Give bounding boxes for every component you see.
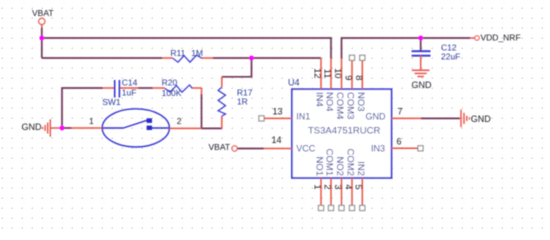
svg-text:R20: R20: [162, 77, 178, 87]
U4 pin 11 NO4: [323, 59, 335, 112]
ground GND (right, pin 7): [461, 110, 491, 128]
svg-text:1M: 1M: [191, 48, 203, 58]
power VBAT (middle): [209, 142, 238, 152]
svg-text:IN2: IN2: [355, 161, 366, 176]
svg-text:GND: GND: [471, 114, 492, 124]
svg-text:COM4: COM4: [334, 92, 345, 119]
U4 pin 7 GND: [392, 106, 422, 118]
junction node C12/VDD_NRF: [418, 36, 423, 41]
svg-text:SW1: SW1: [102, 97, 121, 107]
svg-text:12: 12: [313, 68, 324, 78]
svg-text:VDD_NRF: VDD_NRF: [481, 33, 521, 43]
power VBAT (top-left): [32, 8, 54, 28]
wire junction to R17 top: [222, 58, 252, 77]
U4 pin 5 IN2: [354, 161, 366, 210]
wire SW1 pin2 to R17 bottom: [202, 127, 223, 129]
wire GND junction to SW1 pin1: [62, 127, 71, 129]
wire U4 pin 7 to GND: [421, 117, 460, 119]
svg-text:100K: 100K: [162, 88, 182, 98]
resistor R11 1M: [162, 48, 213, 62]
U4 pin 2 COM1: [322, 149, 334, 211]
junction node VBAT top: [39, 36, 44, 41]
U4 pin 14 VCC: [264, 135, 292, 149]
svg-text:1: 1: [89, 116, 94, 126]
svg-text:NO2: NO2: [334, 156, 345, 176]
junction node GND/SW1: [60, 126, 65, 131]
wire R20 corner down to SW1 pin2 row: [201, 94, 203, 129]
svg-text:9: 9: [344, 75, 355, 80]
ground GND (under C12): [412, 70, 433, 90]
wire R11 to U4 pin 12: [213, 57, 321, 59]
svg-text:GND: GND: [412, 80, 433, 90]
resistor R20 100K: [153, 77, 202, 98]
svg-text:5: 5: [354, 184, 365, 189]
svg-text:C14: C14: [122, 77, 138, 87]
wire C14 to R20: [138, 87, 153, 89]
svg-text:NO1: NO1: [314, 156, 325, 176]
svg-text:1R: 1R: [237, 96, 248, 106]
svg-text:4: 4: [343, 184, 354, 189]
svg-text:U4: U4: [288, 78, 300, 88]
U4 pin 13 IN1 (unconnected, square end): [259, 106, 292, 121]
capacitor C14 1uF: [103, 77, 138, 97]
U4 pin 4 COM2: [343, 149, 355, 211]
svg-text:1: 1: [312, 184, 323, 189]
svg-text:IN1: IN1: [296, 111, 310, 121]
svg-text:VCC: VCC: [296, 144, 316, 154]
capacitor C12 22uF: [412, 43, 461, 71]
svg-text:2: 2: [322, 184, 333, 189]
svg-text:NO4: NO4: [324, 92, 335, 112]
svg-text:14: 14: [272, 135, 282, 145]
svg-text:3: 3: [333, 184, 344, 189]
svg-text:COM2: COM2: [345, 149, 356, 176]
svg-text:1uF: 1uF: [122, 88, 137, 98]
switch SW1: [71, 97, 201, 147]
wire VBAT2 to U4 pin 14: [238, 148, 264, 150]
wire VBAT vertical: [41, 28, 43, 58]
svg-text:R11: R11: [170, 48, 185, 58]
svg-text:VBAT: VBAT: [209, 142, 231, 152]
U4 pin 6 IN3 (unconnected, square end): [392, 136, 424, 151]
resistor R17 1R (vertical): [218, 77, 253, 129]
power VDD_NRF: [470, 33, 520, 43]
svg-text:8: 8: [354, 75, 365, 80]
svg-text:10: 10: [333, 68, 344, 78]
svg-text:GND: GND: [22, 122, 43, 132]
svg-text:VBAT: VBAT: [32, 8, 54, 18]
wire junction to C12: [420, 38, 422, 51]
svg-text:IN3: IN3: [371, 143, 385, 153]
junction node R11/R17: [249, 56, 254, 61]
U4 pin 9 COM3 (unconnected): [344, 55, 356, 119]
svg-text:2: 2: [177, 116, 182, 126]
wire VBAT to U4 pin 11 (top net y=38): [42, 38, 331, 59]
ground GND (left): [22, 119, 63, 136]
wire C14 loop top-left: [62, 88, 103, 128]
U4 pin 12 IN4: [313, 58, 325, 107]
svg-text:13: 13: [273, 106, 283, 116]
wire VBAT to R11 (y=57): [42, 57, 162, 59]
IC U4 TS3A4751RUCR: [288, 78, 392, 178]
svg-text:TS3A4751RUCR: TS3A4751RUCR: [308, 126, 380, 137]
svg-text:NO3: NO3: [355, 92, 366, 112]
svg-text:11: 11: [323, 69, 334, 79]
svg-text:6: 6: [397, 136, 402, 146]
wire U4 pin 10 to VDD_NRF: [342, 38, 471, 59]
svg-text:22uF: 22uF: [441, 52, 460, 62]
svg-text:7: 7: [398, 106, 403, 116]
svg-text:COM1: COM1: [324, 149, 335, 176]
U4 pin 3 NO2: [333, 156, 345, 210]
U4 pin 10 COM4: [333, 59, 345, 120]
svg-text:COM3: COM3: [345, 92, 356, 119]
U4 pin 1 NO1: [312, 156, 324, 210]
svg-text:GND: GND: [366, 111, 387, 121]
U4 pin 8 NO3 (unconnected): [354, 55, 366, 111]
svg-text:IN4: IN4: [314, 92, 325, 107]
